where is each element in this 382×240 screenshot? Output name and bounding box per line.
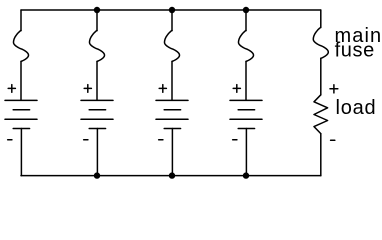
node junction top bus x=172 [169, 7, 175, 13]
fuse F2 [90, 30, 105, 61]
label B1 plus [8, 85, 15, 93]
node junction top bus x=246 [243, 7, 249, 13]
label load plus [330, 85, 338, 93]
wire right branch fuse-to-load [320, 58, 322, 95]
wire branch 2 fuse-to-battery [96, 61, 98, 100]
label B3 minus [159, 139, 163, 141]
wire branch 3 bottom drop [171, 129, 173, 176]
label B3 plus [159, 85, 166, 93]
resistor load [314, 95, 328, 134]
wire branch 4 fuse-to-battery [245, 61, 247, 100]
battery B2 [81, 100, 113, 128]
battery B3 [156, 100, 188, 128]
wire right branch top drop [320, 10, 322, 28]
wire branch 1 top drop [20, 10, 22, 31]
node junction bottom bus x=246 [243, 172, 249, 178]
wire right branch bottom drop [320, 134, 322, 176]
label B2 minus [84, 139, 88, 141]
wire branch 1 fuse-to-battery [20, 61, 22, 100]
wire branch 2 top drop [96, 10, 98, 31]
label load minus [331, 139, 335, 141]
wire branch 4 bottom drop [245, 129, 247, 176]
label B4 minus [233, 139, 237, 141]
label B1 minus [8, 139, 12, 141]
wire branch 4 top drop [245, 10, 247, 31]
node junction bottom bus x=172 [169, 172, 175, 178]
fuse main [313, 27, 328, 58]
wire branch 2 bottom drop [96, 129, 98, 176]
fuse F4 [239, 30, 254, 61]
wire branch 3 top drop [171, 10, 173, 31]
node junction top bus x=97 [94, 7, 100, 13]
svg-text:load: load [336, 97, 377, 119]
fuse F1 [14, 30, 29, 61]
wire top bus [21, 9, 321, 11]
fuse F3 [165, 30, 180, 61]
wire bottom bus [21, 175, 321, 177]
wire branch 3 fuse-to-battery [171, 61, 173, 100]
battery B4 [230, 100, 262, 128]
wire branch 1 bottom drop [20, 129, 22, 176]
node junction bottom bus x=97 [94, 172, 100, 178]
svg-text:fuse: fuse [335, 39, 375, 61]
label B4 plus [233, 85, 240, 93]
label B2 plus [84, 85, 91, 93]
battery B1 [5, 100, 37, 128]
